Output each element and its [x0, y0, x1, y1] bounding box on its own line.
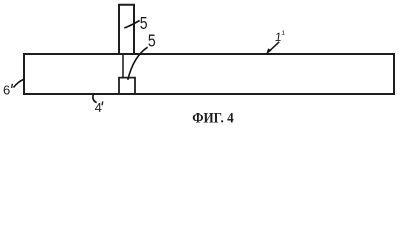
leader line to label 4 (hook) — [93, 94, 97, 102]
svg-text:1: 1 — [281, 30, 286, 37]
leader line to label 6 — [14, 79, 25, 88]
arrowhead at plate top edge — [266, 48, 272, 54]
svg-text:5: 5 — [140, 13, 148, 33]
anchor block 5 (small rectangle inside plate) — [119, 78, 135, 94]
stud 5 (upper vertical rectangle) — [119, 5, 134, 55]
svg-text:ФИГ. 4: ФИГ. 4 — [192, 111, 234, 127]
stem wire (thin connector between stud and block) — [122, 55, 124, 78]
leader line to label 5 (upper) — [124, 21, 139, 28]
svg-text:4: 4 — [95, 100, 102, 115]
plate body 1 (long rectangle) — [24, 54, 394, 94]
svg-text:6: 6 — [3, 83, 10, 98]
leader line to label 5 (lower, curved) — [128, 47, 148, 80]
svg-text:5: 5 — [148, 31, 156, 51]
arrow leader to label 1 — [268, 42, 279, 52]
